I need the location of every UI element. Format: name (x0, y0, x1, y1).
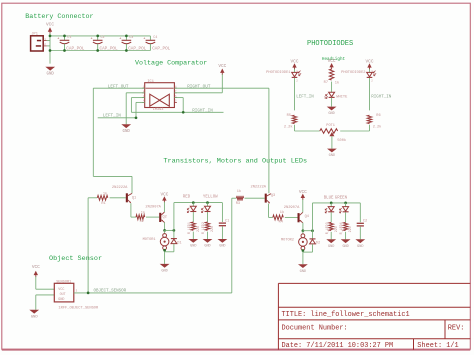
VCC supply photodiode2 (366, 59, 374, 69)
junction VCC rail (49, 35, 52, 38)
op-amp comparator IC1 (145, 80, 175, 112)
VCC supply Q2 (160, 192, 168, 202)
wire C2f to gnd (359, 227, 361, 240)
svg-text:LEFT_OUT: LEFT_OUT (108, 84, 129, 89)
svg-text:R6: R6 (376, 114, 380, 118)
svg-text:GND: GND (123, 130, 131, 134)
svg-text:220: 220 (334, 226, 338, 232)
wire IC1 right in vertical (182, 98, 184, 113)
potentiometer POT1 body (320, 129, 338, 134)
wire Q2 emitter down (164, 222, 166, 230)
junction LED blue (330, 202, 333, 205)
svg-text:VCC: VCC (32, 265, 40, 270)
junction LED green (344, 202, 347, 205)
wire Q1 emitter down (130, 203, 132, 217)
wire R5 to rail (294, 125, 296, 131)
wire to R1 (88, 197, 97, 199)
svg-text:2N2222A: 2N2222A (251, 186, 267, 190)
junction C2 top (96, 35, 99, 38)
svg-text:CAP_POL: CAP_POL (128, 47, 146, 52)
wire to D1 (173, 230, 175, 238)
wire D2 down (312, 244, 314, 252)
wire rail to LED yellow output (207, 203, 209, 207)
svg-text:GREEN: GREEN (335, 197, 348, 201)
junction object sensor net (87, 292, 90, 295)
svg-text:2N2907A: 2N2907A (284, 206, 300, 210)
wire VCC to Q2 collector (163, 202, 165, 212)
ground C1 filter (218, 239, 228, 249)
junction D1 top (173, 229, 176, 232)
wire LED rail 2 (313, 202, 361, 204)
junction D2 top (311, 229, 314, 232)
wire JP1 pin1 (47, 40, 50, 42)
svg-text:Q2: Q2 (163, 215, 167, 219)
resistor R3 (237, 196, 244, 201)
svg-text:GND: GND (329, 154, 335, 158)
wire Q1 emitter to R2 (131, 216, 136, 218)
svg-text:GND: GND (31, 315, 39, 319)
wire motor1 to gnd (164, 250, 166, 264)
junction LED yellow (206, 201, 209, 204)
wire object sensor to R3 vertical (231, 198, 233, 293)
svg-text:PHOTODIODE1: PHOTODIODE1 (266, 71, 291, 75)
wire OBJECT_SENSOR (74, 292, 232, 294)
svg-text:CAP_POL: CAP_POL (100, 47, 118, 52)
wire R_LED3 to gnd (330, 232, 332, 239)
resistor R5 (292, 115, 296, 123)
wire VCC to GND vertical (49, 33, 51, 64)
svg-text:PHOTODIODES: PHOTODIODES (307, 40, 353, 48)
wire C1f to gnd (221, 227, 223, 240)
wire VCC sensor horizontal (36, 288, 55, 290)
svg-text:500k: 500k (337, 138, 346, 143)
ground LED green output (341, 239, 351, 249)
svg-text:220: 220 (348, 226, 352, 232)
LED red output (187, 206, 196, 212)
wire R_LED2 to gnd (207, 232, 209, 239)
wire POT1 to rail right (340, 130, 369, 132)
wire rail to C1f (221, 203, 223, 222)
svg-text:OUT: OUT (60, 293, 66, 297)
VCC supply photodiode1 (291, 59, 299, 69)
svg-text:1k: 1k (103, 191, 107, 196)
svg-text:REV:: REV: (448, 324, 465, 332)
wire VCC sensor vertical (35, 277, 37, 290)
wire LEFT_OUT vertical (92, 88, 94, 176)
junction motor1 top (163, 229, 166, 232)
svg-text:Object Sensor: Object Sensor (49, 255, 102, 263)
wire rail1 vertical (173, 203, 175, 231)
LED green output (340, 207, 349, 213)
ground headlight (327, 107, 337, 117)
svg-text:2N2222A: 2N2222A (112, 186, 128, 190)
svg-text:R3: R3 (236, 202, 240, 206)
wire D1 return (165, 251, 174, 253)
svg-text:Date: 7/11/2011 10:03:27 PM: Date: 7/11/2011 10:03:27 PM (282, 342, 394, 350)
wire RIGHT_IN horizontal (131, 111, 223, 113)
svg-text:GND: GND (328, 112, 334, 116)
svg-text:VCC: VCC (46, 23, 54, 28)
junction C1 bottom (63, 49, 66, 52)
svg-text:SENSOR1: SENSOR1 (56, 280, 71, 284)
ground battery (45, 67, 55, 77)
svg-text:PHOTODIODE2: PHOTODIODE2 (341, 71, 365, 75)
svg-text:+: + (91, 37, 93, 41)
VCC supply battery (46, 23, 54, 34)
svg-text:RIGHT_OUT: RIGHT_OUT (187, 84, 211, 89)
svg-text:+: + (143, 37, 145, 41)
svg-text:+: + (57, 37, 59, 41)
junction C2 bottom (96, 49, 99, 52)
wire LED green output to resistor (345, 212, 347, 222)
wire Q3 emitter to R4 (269, 216, 273, 218)
wire LED red output to resistor (192, 212, 194, 222)
wire GND sensor vertical (35, 295, 37, 310)
svg-text:1k: 1k (141, 210, 145, 215)
LED3 white (326, 92, 335, 98)
svg-text:VCC: VCC (328, 59, 336, 64)
svg-text:RIGHT_IN: RIGHT_IN (371, 96, 392, 100)
svg-text:GND: GND (328, 245, 334, 249)
ground LED blue output (326, 239, 336, 249)
IC1 pin stubs right (174, 87, 177, 89)
wire R4 to Q4 base (285, 216, 298, 218)
svg-text:R4: R4 (279, 220, 283, 224)
svg-text:RIGHT_IN: RIGHT_IN (192, 109, 213, 114)
svg-text:1k: 1k (280, 210, 284, 215)
wire VCC comparator horizontal (174, 92, 222, 94)
ground sensor (29, 310, 39, 320)
transistor Q3 (265, 194, 275, 204)
wire R3 to Q3 base (245, 197, 265, 199)
wire IC1 gnd vertical (125, 93, 127, 125)
wire LED blue output to resistor (330, 212, 332, 222)
junction C3 bottom (125, 49, 128, 52)
wire D2 return (303, 251, 313, 253)
svg-text:R2: R2 (140, 220, 144, 224)
VCC supply headlight (328, 59, 336, 69)
wire LEFT_OUT to Q1 collector (131, 176, 133, 193)
photodiode LED2 (367, 70, 376, 82)
svg-text:1RFF_OBJECT_SENSOR: 1RFF_OBJECT_SENSOR (58, 307, 99, 311)
wire rail left to POT1 (295, 130, 320, 132)
wire motor1 top link (165, 229, 174, 231)
VCC supply sensor (32, 265, 40, 277)
svg-text:2N2907A: 2N2907A (145, 206, 161, 210)
wire LEFT_IN horizontal (98, 117, 136, 119)
object sensor SENSOR1 (54, 280, 99, 310)
diode D2 (310, 239, 316, 244)
wire LEFT_IN vertical (135, 102, 137, 117)
ground POT1 (327, 149, 337, 159)
ground LED red output (188, 239, 198, 249)
svg-text:C1: C1 (67, 36, 71, 40)
svg-text:R_LED4: R_LED4 (339, 222, 343, 234)
svg-text:GND: GND (357, 245, 363, 249)
svg-text:Battery Connector: Battery Connector (25, 13, 93, 21)
ground motor1 (160, 264, 170, 274)
wire LEFT_OUT horizontal (93, 87, 144, 89)
svg-text:LM393: LM393 (153, 108, 164, 112)
wire Q3 emitter down (268, 204, 270, 218)
resistor R7 (329, 69, 333, 80)
svg-text:R5: R5 (287, 114, 291, 118)
resistor R6 (367, 115, 371, 123)
wire photodiode2 down (369, 78, 371, 110)
wire R_LED1 to gnd (192, 232, 194, 239)
svg-text:VCC: VCC (58, 288, 64, 292)
wire to D2 (312, 231, 314, 239)
wire rail to LED blue output (330, 203, 332, 207)
svg-text:R7: R7 (324, 81, 328, 85)
photodiode LED1 (292, 70, 301, 82)
connector JP1 (31, 33, 47, 51)
svg-text:GND: GND (300, 270, 306, 274)
wire VCC comparator vertical (221, 74, 223, 93)
wire RIGHT_OUT horizontal (174, 87, 269, 89)
wire object sensor to R1 vertical (87, 198, 89, 293)
wire rail to C2f (359, 203, 361, 222)
wire IC1 in pin horizontal (131, 97, 144, 99)
resistor R1 (97, 195, 108, 200)
svg-text:VCC: VCC (218, 64, 226, 69)
wire POT1 wiper to gnd (331, 136, 333, 148)
svg-text:R1: R1 (101, 202, 105, 206)
transistor Q1 (126, 193, 136, 203)
svg-text:Document Number:: Document Number: (282, 324, 348, 332)
capacitor C2 filter (357, 220, 368, 226)
wire IC1 in pin vertical (130, 98, 132, 113)
svg-text:D3: D3 (324, 96, 328, 100)
ground LED yellow output (203, 239, 213, 249)
svg-text:R_LED2: R_LED2 (201, 222, 205, 234)
svg-text:OBJECT_SENSOR: OBJECT_SENSOR (94, 290, 127, 294)
transistor Q2 (159, 212, 167, 223)
VCC supply comparator (218, 64, 226, 75)
svg-text:R_LED1: R_LED1 (187, 222, 191, 234)
capacitor C2 (91, 36, 118, 52)
wire rail to LED green output (345, 203, 347, 207)
wire R6 to rail (369, 125, 371, 131)
svg-text:D2: D2 (316, 242, 320, 246)
junction LED red (192, 201, 195, 204)
svg-text:GND: GND (190, 245, 196, 249)
wire Q4 emitter down (302, 223, 304, 231)
wire JP1 pin2 (47, 45, 50, 47)
svg-text:GND: GND (47, 72, 55, 76)
LED yellow output (202, 206, 211, 212)
junction GND rail (49, 49, 52, 52)
resistor R_LED3 (329, 222, 333, 230)
junction C3 top (125, 35, 128, 38)
wire LED3 to gnd (331, 98, 333, 107)
svg-text:IC1: IC1 (147, 80, 153, 84)
svg-text:CAP_POL: CAP_POL (152, 47, 170, 52)
svg-text:CAP_POL: CAP_POL (66, 47, 84, 52)
wire to motor1 (164, 230, 166, 233)
IC1 pin stubs left (142, 87, 145, 89)
svg-text:220: 220 (196, 226, 200, 232)
svg-text:VCC: VCC (160, 192, 168, 197)
capacitor C1 (57, 36, 84, 52)
capacitor C3 (119, 36, 146, 52)
junction C1 top (63, 35, 66, 38)
wire RIGHT_OUT vertical (268, 88, 270, 193)
resistor R4 (273, 215, 284, 220)
wire LEFT_IN to pin (136, 101, 145, 103)
svg-text:GND: GND (342, 245, 348, 249)
junction motor1 bottom (163, 249, 166, 252)
svg-text:C2: C2 (363, 220, 367, 224)
wire R_LED4 to gnd (345, 232, 347, 239)
wire bottom rail GND (50, 50, 150, 52)
wire D1 down (173, 244, 175, 252)
svg-text:GND: GND (219, 245, 225, 249)
junction motor2 top (302, 229, 305, 232)
svg-text:LEFT_IN: LEFT_IN (296, 96, 314, 100)
junction LEFT_IN (135, 116, 138, 119)
wire rail2 vertical (312, 203, 314, 231)
svg-text:D1: D1 (177, 241, 181, 245)
svg-text:+: + (119, 37, 121, 41)
wire to motor2 (302, 231, 304, 234)
VCC supply Q4 (299, 190, 307, 200)
wire LED yellow output to resistor (207, 212, 209, 222)
svg-text:TITLE: line_follower_schematic: TITLE: line_follower_schematic1 (282, 311, 410, 319)
capacitor C1 filter (219, 220, 230, 226)
wire R2 to Q2 base (146, 216, 159, 218)
wire LED rail 1 (174, 202, 223, 204)
svg-text:Q4: Q4 (305, 215, 309, 219)
junction RIGHT_IN (182, 111, 185, 114)
svg-text:MOTOR1: MOTOR1 (143, 238, 156, 242)
ground comparator (121, 124, 131, 134)
resistor R2 (136, 215, 145, 220)
svg-text:YELLOW: YELLOW (203, 195, 218, 199)
wire to R3 (232, 197, 237, 199)
svg-text:POT1: POT1 (326, 124, 335, 128)
svg-text:RED: RED (183, 195, 191, 199)
svg-text:2.2k: 2.2k (284, 124, 293, 129)
svg-text:Q3: Q3 (271, 194, 275, 198)
capacitor C4 (143, 36, 170, 52)
wire vcc to photodiode2 (369, 69, 371, 72)
title block (278, 283, 470, 349)
ground C2 filter (355, 239, 365, 249)
motor MOTOR1 (143, 234, 169, 250)
svg-text:BLUE: BLUE (324, 197, 334, 201)
svg-text:C1: C1 (225, 220, 229, 224)
wire VCC to Q4 collector (302, 199, 304, 212)
svg-text:MOTOR2: MOTOR2 (281, 238, 294, 242)
resistor R_LED4 (343, 222, 347, 230)
wire photodiode1 down (294, 78, 296, 110)
svg-text:220: 220 (210, 226, 214, 232)
wire motor2 top link (303, 230, 313, 232)
diode D1 (171, 239, 177, 244)
svg-text:1k: 1k (335, 81, 339, 86)
svg-text:Q1: Q1 (132, 197, 136, 201)
ground motor2 (298, 264, 308, 274)
wire top rail VCC (50, 35, 150, 37)
svg-text:2.2k: 2.2k (373, 124, 382, 129)
svg-text:Transistors, Motors and Output: Transistors, Motors and Output LEDs (163, 158, 307, 166)
svg-text:C2: C2 (101, 36, 105, 40)
LED blue output (325, 207, 334, 213)
motor MOTOR2 (281, 234, 307, 250)
resistor R_LED1 (191, 222, 195, 230)
wire R7 to LED3 (331, 82, 333, 93)
svg-text:JP1: JP1 (31, 33, 37, 37)
wire IC1 right in horizontal (174, 97, 183, 99)
wire rail to LED red output (192, 203, 194, 207)
svg-text:GND: GND (58, 298, 64, 302)
wire motor2 to gnd (302, 250, 304, 264)
wire R1 to Q1 base (110, 197, 126, 199)
svg-text:R_LED3: R_LED3 (325, 222, 329, 234)
wire IC1 gnd pin horizontal (126, 92, 145, 94)
svg-text:C4: C4 (153, 36, 157, 40)
svg-text:Voltage Comparator: Voltage Comparator (135, 59, 207, 67)
junction motor2 bottom (302, 249, 305, 252)
wire GND sensor horizontal (36, 294, 55, 296)
svg-text:GND: GND (161, 270, 167, 274)
svg-text:1k: 1k (237, 189, 241, 194)
wire vcc to photodiode1 (294, 69, 296, 72)
transistor Q4 (298, 212, 309, 223)
svg-text:GND: GND (204, 245, 210, 249)
svg-text:C3: C3 (129, 36, 133, 40)
resistor R_LED2 (205, 222, 209, 230)
wire LEFT_OUT jog horizontal (93, 175, 132, 177)
svg-text:WHITE: WHITE (336, 96, 348, 100)
svg-text:Sheet: 1/1: Sheet: 1/1 (417, 342, 458, 350)
